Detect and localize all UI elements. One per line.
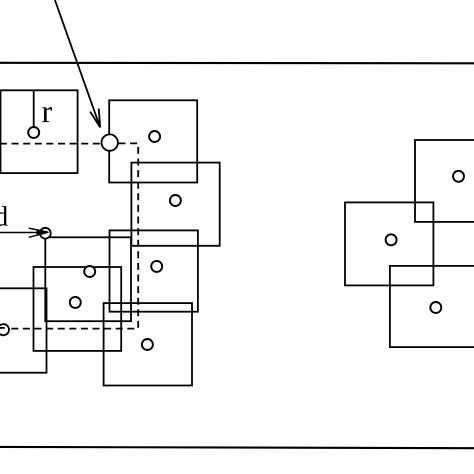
dot of square D (70, 297, 81, 308)
square D (34, 267, 122, 351)
strip top boundary line (0, 62, 474, 65)
label r (42, 107, 52, 122)
square E (clipped at left edge) (0, 288, 47, 372)
dot of square I (386, 234, 397, 245)
circle P1 (event point on square A edge) (102, 134, 118, 150)
square C (110, 230, 198, 311)
d-circle (top-left corner of square X) (40, 228, 51, 239)
long arrow from top pointing to circle P1 (55, 0, 100, 127)
dot of square E / trajectory end circle (0, 324, 9, 335)
dot of R1 (28, 127, 39, 138)
dot of square C (151, 261, 162, 272)
dot of square J (430, 302, 441, 313)
square X (below d-circle) (45, 237, 131, 321)
radius line r inside R1 (33, 90, 35, 127)
square B (131, 163, 219, 246)
dot of square B (170, 195, 181, 206)
dot of square F (142, 339, 153, 350)
dashed trajectory segment 2 (P1 right, down, back left to circle E) (10, 143, 138, 328)
dot of square X (84, 266, 95, 277)
d arrowhead fill (37, 230, 49, 234)
square R1 (radius reference rect, top-left) (1, 90, 78, 173)
label d (clipped at left edge) (0, 206, 8, 226)
square F (104, 303, 192, 385)
square H (clipped at right edge) (415, 140, 474, 222)
square I (345, 202, 433, 285)
dot of square A (149, 131, 160, 142)
strip bottom boundary line (0, 447, 474, 448)
dot of square H (453, 171, 464, 182)
dash fragment inside circle E (0, 327, 5, 329)
square J (clipped at right edge) (390, 266, 474, 347)
d arrow (horizontal, points right into d-circle) (0, 228, 49, 237)
square A (109, 100, 197, 182)
dashed trajectory segment 1 (left to circle P1) (0, 143, 101, 145)
